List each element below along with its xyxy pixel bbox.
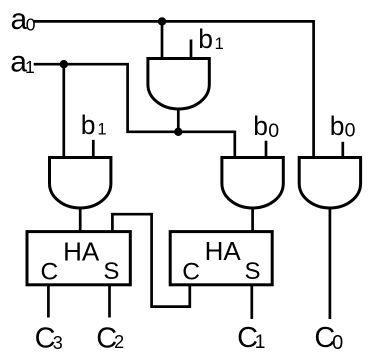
svg-text:S: S xyxy=(245,258,261,285)
wire carry from HA2 C output to HA1 top input xyxy=(112,214,189,306)
and-gate U3 (a1 AND b0) xyxy=(222,158,283,209)
svg-text:b: b xyxy=(198,24,213,54)
wire a1 branch down to AND gate U2 xyxy=(62,64,65,158)
svg-text:1: 1 xyxy=(255,331,266,353)
svg-text:b: b xyxy=(81,110,96,140)
svg-text:1: 1 xyxy=(25,57,35,77)
wire U3 output to HA2 xyxy=(251,207,254,232)
wire b0 stub into U3 xyxy=(265,141,268,159)
svg-text:b: b xyxy=(330,111,345,141)
wire b1 stub into U1 xyxy=(190,40,193,60)
svg-text:S: S xyxy=(103,258,119,285)
svg-text:b: b xyxy=(253,111,268,141)
wire a0 branch down to AND gate U1 xyxy=(161,21,164,59)
svg-text:0: 0 xyxy=(332,332,343,354)
wire a1 horizontal, down, across to AND gate U3 left input xyxy=(34,64,235,158)
svg-text:0: 0 xyxy=(268,120,279,142)
svg-text:C: C xyxy=(182,259,200,286)
wire U2 output to HA1 xyxy=(79,207,82,232)
wire HA1 C output to C3 xyxy=(47,285,50,318)
half-adder HA2 box xyxy=(170,232,272,285)
svg-text:3: 3 xyxy=(53,333,63,353)
wire b1 stub into U2 xyxy=(92,140,95,159)
and-gate U2 (a1 AND b1) xyxy=(50,158,111,209)
svg-text:1: 1 xyxy=(215,35,224,53)
svg-text:2: 2 xyxy=(114,332,124,352)
wire b0 stub into U4 xyxy=(341,142,344,159)
svg-text:0: 0 xyxy=(345,120,356,142)
node a1 junction dot xyxy=(60,60,68,68)
node a0 junction dot xyxy=(158,17,166,25)
svg-text:HA: HA xyxy=(63,237,100,267)
half-adder HA1 box xyxy=(27,232,130,285)
svg-text:HA: HA xyxy=(205,236,242,266)
wire a0 horizontal line with right turn down to AND gate U4 xyxy=(34,21,314,158)
wire HA2 S output to C1 xyxy=(250,285,253,319)
wire HA1 S output to C2 xyxy=(108,285,111,318)
and-gate U4 (a0 AND b0) xyxy=(299,158,360,209)
svg-text:C: C xyxy=(41,258,59,285)
svg-text:1: 1 xyxy=(97,121,106,139)
node U1 output junction dot xyxy=(174,128,182,136)
wire U4 output down to C0 xyxy=(329,207,332,320)
svg-text:0: 0 xyxy=(26,14,36,34)
wire U1 output down to node xyxy=(177,108,180,132)
and-gate U1 (a0 AND b1) xyxy=(148,59,209,110)
